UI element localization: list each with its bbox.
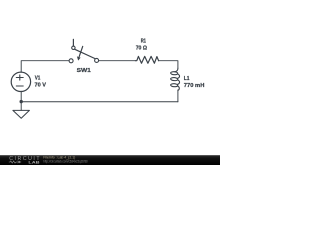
svg-text:70 V: 70 V [35, 83, 47, 89]
svg-text:770 mH: 770 mH [184, 83, 205, 89]
ground triangle [13, 110, 30, 118]
bottom wire [21, 101, 178, 103]
switch SW1 actuation arrow [79, 46, 83, 56]
inductor L1 connector 1-2 [177, 74, 179, 78]
svg-text:LAB: LAB [28, 160, 39, 165]
switch SW1 top throw terminal [72, 46, 75, 49]
V1 plus sign [16, 77, 23, 79]
inductor L1 loop 1 [171, 71, 178, 74]
wire top-left from V1 to SW1 [21, 61, 69, 72]
svg-text:70 Ω: 70 Ω [136, 46, 147, 52]
svg-text:L1: L1 [184, 76, 190, 82]
switch SW1 right terminal [95, 58, 99, 62]
inductor L1 loop 2 [171, 77, 178, 80]
V1 minus sign [16, 85, 23, 87]
footer bar [0, 155, 220, 165]
svg-text:R1: R1 [141, 38, 146, 44]
wire V1 bottom to junction [20, 91, 22, 101]
wire R1 to L1 corner [159, 61, 178, 68]
wire SW1 to R1 [99, 60, 136, 62]
switch SW1 blade [75, 49, 95, 58]
inductor L1 entry hook [175, 68, 178, 72]
CircuitLab logo resistor+diode glyph [9, 161, 21, 163]
inductor L1 bottom stub [177, 90, 179, 102]
resistor R1 zigzag [135, 56, 158, 63]
junction node dot [20, 100, 23, 103]
voltage source V1 body [11, 72, 30, 91]
switch SW1 left terminal [69, 59, 73, 63]
inductor L1 connector 2-3 [177, 80, 179, 85]
svg-text:http://circuitlab.com/c634x22q: http://circuitlab.com/c634x22q26h5/ [43, 160, 88, 164]
inductor L1 loop 3 [171, 83, 178, 86]
switch SW1 arrowhead [77, 56, 81, 60]
inductor L1 exit hook [177, 86, 179, 90]
svg-text:V1: V1 [35, 76, 41, 82]
ground stub [20, 102, 22, 111]
svg-text:SW1: SW1 [77, 68, 91, 74]
switch SW1 pole stub [72, 39, 74, 46]
